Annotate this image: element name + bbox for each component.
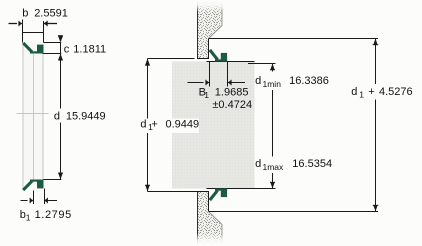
- svg-text:16.5354: 16.5354: [292, 158, 332, 170]
- svg-text:d: d: [140, 119, 146, 131]
- svg-text:1: 1: [359, 90, 364, 100]
- svg-text:0.9449: 0.9449: [166, 119, 200, 131]
- svg-text:±0.4724: ±0.4724: [212, 99, 252, 111]
- svg-text:c: c: [64, 44, 70, 56]
- svg-text:15.9449: 15.9449: [66, 111, 106, 123]
- svg-text:1.9685: 1.9685: [215, 87, 249, 99]
- svg-text:16.3386: 16.3386: [289, 75, 329, 87]
- svg-text:d: d: [255, 158, 261, 170]
- svg-text:b: b: [22, 8, 28, 20]
- svg-text:1.2795: 1.2795: [35, 209, 72, 221]
- svg-text:1.1811: 1.1811: [73, 44, 106, 56]
- svg-text:1: 1: [26, 213, 31, 223]
- svg-text:d: d: [255, 75, 261, 87]
- svg-text:1max: 1max: [263, 162, 285, 172]
- svg-text:+: +: [368, 86, 374, 98]
- svg-text:2.5591: 2.5591: [34, 8, 68, 20]
- svg-text:+: +: [151, 119, 157, 131]
- svg-text:d: d: [351, 86, 357, 98]
- svg-text:4.5276: 4.5276: [379, 86, 413, 98]
- svg-text:1min: 1min: [263, 79, 282, 89]
- svg-text:1: 1: [204, 90, 209, 100]
- svg-text:d: d: [54, 111, 60, 123]
